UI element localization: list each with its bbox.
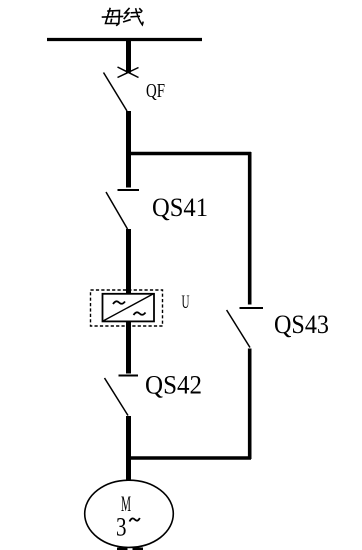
- wire: bottom branch horizontal from QS43: [127, 456, 251, 460]
- breaker QF blade: [104, 73, 128, 112]
- wire: top branch horizontal to QS43: [127, 152, 251, 155]
- svg-text:QS43: QS43: [274, 310, 329, 339]
- label tilde of 3~: [130, 518, 140, 522]
- motor bottom dash left: [117, 548, 128, 550]
- disconnector QS42 T-bar: [119, 375, 139, 377]
- wire: converter U to QS42: [126, 322, 131, 374]
- svg-text:QS41: QS41: [152, 193, 208, 222]
- svg-text:QS42: QS42: [145, 371, 202, 400]
- disconnector QS43 T-bar: [240, 307, 264, 309]
- wire: QS43 vertical lower: [248, 349, 252, 460]
- disconnector QS41 blade: [106, 192, 128, 229]
- breaker QF contact X mark: [118, 67, 139, 78]
- disconnector QS43 blade: [227, 310, 250, 348]
- motor M circle: [85, 480, 174, 547]
- wire: busbar to breaker QF: [126, 40, 131, 73]
- wire: QS41 to converter U: [126, 229, 131, 294]
- converter U diagonal: [103, 294, 153, 321]
- converter U dashed enclosure: [91, 290, 163, 326]
- svg-text:U: U: [182, 293, 190, 313]
- wire: QF to QS41: [126, 111, 131, 188]
- motor bottom dash right: [133, 548, 144, 550]
- svg-text:3: 3: [116, 513, 127, 542]
- converter U tilde upper: [113, 301, 125, 304]
- disconnector QS41 T-bar: [118, 189, 140, 191]
- converter U box: [103, 294, 155, 322]
- svg-text:QF: QF: [146, 81, 165, 102]
- converter U tilde lower: [134, 312, 146, 315]
- wire: QS42 to motor: [126, 416, 131, 480]
- busbar: [47, 38, 202, 41]
- wire: QS43 vertical upper: [248, 152, 252, 305]
- busbar label 母线: [103, 9, 144, 26]
- disconnector QS42 blade: [105, 378, 129, 416]
